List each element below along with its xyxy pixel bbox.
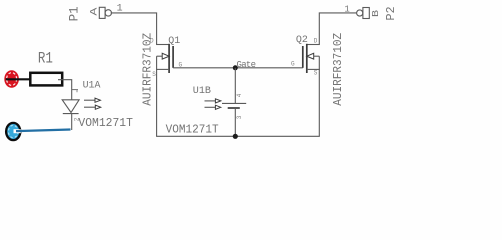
U1A LED triangle [62, 100, 79, 113]
wire Q2 drain to P2 pin 1 [319, 13, 357, 45]
svg-text:AUIRFR3710Z: AUIRFR3710Z [332, 33, 345, 106]
svg-text:S: S [314, 70, 318, 77]
Q2 channel [306, 44, 308, 73]
svg-text:AUIRFR3710Z: AUIRFR3710Z [142, 33, 155, 106]
optocoupler LED U1A [62, 80, 101, 130]
annotation blue wire to U1A cathode [16, 130, 71, 132]
wire P1 pin 1 to Q1 drain [111, 13, 157, 45]
svg-text:P2: P2 [384, 6, 398, 20]
svg-text:R1: R1 [38, 49, 53, 67]
wire R1 to U1A anode [58, 80, 72, 100]
connector P1 [66, 4, 122, 22]
photovoltaic U1B [193, 68, 246, 137]
gate net wire [173, 67, 303, 69]
Q2 body lead [314, 55, 320, 57]
svg-text:G: G [291, 61, 295, 68]
svg-text:A: A [89, 8, 100, 16]
Q2 drain stub [307, 44, 320, 46]
Q1 body arrow [162, 53, 169, 59]
Q1 drain stub [156, 44, 169, 46]
Q1 source stub [156, 68, 169, 70]
U1A cathode bar [63, 113, 79, 115]
rail junction [233, 134, 238, 139]
svg-text:D: D [314, 38, 318, 45]
U1B pin 4 wire [234, 68, 236, 104]
Q1 gate bar [172, 46, 174, 68]
transistor Q2 [291, 35, 320, 77]
U1B light arrow 1 [205, 100, 216, 102]
Q2 source stub [307, 68, 320, 70]
svg-text:VOM1271T: VOM1271T [166, 124, 219, 137]
transistor Q1 [150, 36, 183, 78]
svg-text:P1: P1 [66, 6, 81, 21]
U1B top plate [222, 102, 246, 104]
node Gate junction [233, 65, 238, 70]
svg-text:4: 4 [236, 93, 243, 97]
U1A emission arrow 2 [84, 106, 95, 108]
U1B bottom plate [228, 107, 240, 109]
resistor R1 [30, 49, 62, 85]
svg-text:U1B: U1B [193, 85, 211, 97]
common source rail wire [156, 135, 320, 137]
svg-text:VOM1271T: VOM1271T [78, 117, 133, 130]
U1B pin 3 wire [234, 108, 236, 136]
Q2 body arrow [307, 53, 314, 59]
Q1 source lead wire [156, 56, 158, 136]
U1A cathode pin wire [71, 114, 73, 130]
annotation wire to R1 [6, 78, 30, 80]
svg-text:U1A: U1A [83, 80, 101, 92]
svg-text:Gate: Gate [237, 60, 257, 70]
svg-text:Q1: Q1 [168, 36, 180, 47]
annotation: cyan probe marker [6, 123, 21, 140]
Q1 body lead [157, 55, 163, 57]
Q1 channel [168, 44, 170, 73]
connector P2 [344, 5, 397, 21]
U1A emission arrow 1 [84, 99, 95, 101]
svg-text:1: 1 [344, 5, 349, 15]
U1A pin 1 number [72, 89, 78, 91]
svg-text:B: B [370, 10, 381, 18]
annotation: red probe marker [4, 70, 19, 88]
svg-text:3: 3 [236, 115, 243, 119]
Q2 gate bar [302, 46, 304, 68]
U1B light arrow 2 [205, 106, 216, 108]
Q2 source lead wire [318, 56, 320, 136]
